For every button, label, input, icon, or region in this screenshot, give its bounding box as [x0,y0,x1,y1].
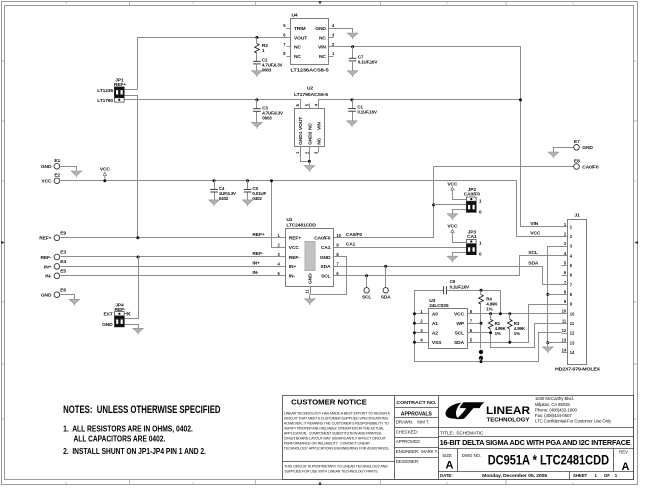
test point SDA [383,288,388,293]
wire CA1 net U1.9 to JP3 [334,247,467,249]
svg-text:CA1: CA1 [346,242,356,248]
svg-text:VERIFY PROPER AND RELIABLE OPE: VERIFY PROPER AND RELIABLE OPERATION IN … [284,426,384,430]
svg-text:13: 13 [570,340,575,345]
wire U4 pin7 NC stub [287,46,291,48]
svg-text:LT1236ACS8-5: LT1236ACS8-5 [291,68,329,74]
resistor R3 [507,319,512,329]
svg-text:NC: NC [317,137,323,144]
svg-text:2. INSTALL SHUNT ON JP1-JP4 P: 2. INSTALL SHUNT ON JP1-JP4 PIN 1 AND 2. [63,447,206,456]
svg-text:GND1: GND1 [298,131,304,145]
svg-text:VCC: VCC [100,167,111,173]
svg-text:CA0/F0: CA0/F0 [314,236,331,242]
svg-text:U4: U4 [292,13,298,19]
wire J1 pin3 to ground vertical [548,247,562,343]
wire J1 pin 13 stub [562,342,568,344]
wire JP1 pin2 REF+ select to REF+ row [125,96,138,238]
node C1 junction [351,98,354,101]
op-amp U3 24LC025 [429,309,468,349]
ground C3 [252,122,263,127]
svg-text:E4: E4 [60,259,66,265]
terminal E8 [574,164,580,170]
node VCC drop to row junction [499,312,502,315]
wire JP3 VCC pin [453,238,467,243]
svg-text:CONTRACT NO.: CONTRACT NO. [396,400,436,405]
svg-text:14: 14 [562,347,567,352]
wire J1 pin 2 stub [562,236,568,238]
terminal E3 [54,254,60,260]
wire U3 left pin [415,313,429,315]
capacitor C1 [348,108,356,110]
svg-text:REF-: REF- [252,251,263,257]
wire U3 right pin stub [468,313,474,315]
svg-text:VIN: VIN [530,221,538,227]
wire VIN net U4.2 to J1 [329,47,562,227]
jumper pads to ground [479,350,483,354]
capacitor C3 [253,108,261,110]
wire J1 pin 3 stub [562,246,568,248]
svg-text:14: 14 [570,350,575,355]
svg-text:LT1790ACS6-5: LT1790ACS6-5 [294,92,328,98]
svg-text:TRIM: TRIM [294,26,306,32]
ground C4 [209,200,220,205]
wire U1 VCC pin2 from rail [272,181,280,248]
svg-text:0402: 0402 [252,196,262,201]
wire J1 pin 10 stub [562,313,568,315]
svg-text:EXT: EXT [103,312,112,318]
svg-text:B: B [2,300,4,304]
title block frame [283,396,634,480]
svg-text:E5: E5 [60,269,66,275]
node C5 junction [246,179,249,182]
terminal E9 [54,235,60,241]
node VIN rail joins VIN vertical [519,98,522,101]
jumper JP4 [115,312,125,316]
svg-text:GND2: GND2 [307,131,313,145]
wire U3 right pin stub [468,342,474,344]
VCC symbol JP3 [451,233,453,238]
resistor R2 [255,44,260,54]
svg-text:16-BIT DELTA SIGMA ADC WITH PG: 16-BIT DELTA SIGMA ADC WITH PGA AND I2C … [440,438,631,447]
svg-text:DRAWN: KIM T.: DRAWN: KIM T. [396,420,429,425]
wire SCL row U3.6 to J1.11 [474,324,562,348]
svg-text:SCL: SCL [455,331,465,337]
svg-text:1: 1 [479,198,482,204]
ground C2 [252,71,263,76]
svg-text:NC: NC [294,54,301,60]
svg-text:C6: C6 [450,279,456,284]
svg-text:IN-: IN- [252,270,259,276]
svg-text:CA0/F0: CA0/F0 [346,232,363,238]
svg-text:TITLE: SCHEMATIC: TITLE: SCHEMATIC [440,430,484,436]
svg-text:Fax: (408)434-0507: Fax: (408)434-0507 [535,413,572,418]
svg-text:DC951A * LTC2481CDD: DC951A * LTC2481CDD [488,453,610,468]
wire REF+ row E9 to U1.1 [61,237,280,239]
wire J1 pin8 [548,294,562,296]
svg-text:SDA: SDA [454,340,465,346]
node C7 junction on VIN [351,45,354,48]
wire U1 left pin stub [280,275,286,277]
svg-text:VCC: VCC [447,181,458,187]
wire CA0/F0 net U1.10 to JP2/E8 vertical [334,167,434,238]
wire J1 pin 4 stub [562,255,568,257]
svg-text:J1: J1 [574,212,580,218]
svg-text:LT1790: LT1790 [97,98,113,104]
node J1 pin13 gnd junction [546,341,549,344]
node R3 bottom junction [508,341,511,344]
wire U3 right pin stub [468,323,474,325]
wire J1 pin 5 stub [562,265,568,267]
svg-text:1630 McCarthy Blvd.: 1630 McCarthy Blvd. [535,396,574,401]
capacitor C7 [349,57,357,59]
logo block lines [439,427,634,429]
svg-text:SUPPLIED FOR USE WITH LINEAR T: SUPPLIED FOR USE WITH LINEAR TECHNOLOGY … [284,470,378,474]
jumper JP3 [467,239,477,243]
node C3 junction [255,98,258,101]
LT logo [445,402,484,419]
svg-text:U1: U1 [286,217,292,223]
svg-text:CIRUIT BOARD LAYOUT MAY SIGNIF: CIRUIT BOARD LAYOUT MAY SIGNIFICANTLY AF… [284,436,387,440]
svg-text:CA1: CA1 [321,245,331,251]
svg-text:IN+: IN+ [289,264,297,270]
svg-text:LTC2481CDD: LTC2481CDD [286,222,316,228]
VCC symbol [104,176,106,181]
capacitor C5 [244,188,252,190]
svg-text:REV: REV [619,450,628,455]
node R1 top junction [489,312,492,315]
svg-text:A: A [622,461,630,473]
wire E6 to ground [61,295,75,300]
svg-text:B: B [634,300,636,304]
wire U1 GND pin8 to pad [311,257,347,295]
svg-text:13: 13 [562,338,567,343]
ground E6 [69,299,80,304]
terminal E4 [54,264,60,270]
svg-text:CIRCUIT THAT MEETS CUSTOMER-SU: CIRCUIT THAT MEETS CUSTOMER-SUPPLIED SPE… [284,416,389,420]
node U3 ground rail junction [413,331,416,334]
svg-text:TECHNOLOGY: TECHNOLOGY [487,417,530,423]
wire VIN rail segment (U2.4 to VIN vertical) [319,100,521,109]
node R4 top junction [480,289,483,292]
svg-text:10: 10 [336,233,341,238]
svg-text:REF+: REF+ [114,82,126,88]
wire JP2 VCC pin [453,196,467,200]
wire U2 pins 1,2 to ground [301,147,310,162]
wire U2 pin3 NC stub [318,147,320,153]
svg-text:11: 11 [305,289,310,294]
svg-text:CA0/F0: CA0/F0 [582,164,599,170]
svg-text:IN-: IN- [289,274,296,280]
svg-text:VCC: VCC [447,224,458,230]
svg-text:HD2X7-079-MOLEX: HD2X7-079-MOLEX [555,366,600,371]
svg-text:A1: A1 [432,321,438,327]
svg-text:A: A [2,417,4,421]
svg-text:E6: E6 [60,287,66,293]
svg-text:GND: GND [315,26,326,32]
svg-text:IN-: IN- [45,274,52,280]
svg-text:24LC025: 24LC025 [429,303,449,309]
node VCC drop junction [270,179,273,182]
jumper JP2 [467,197,477,201]
svg-text:A2: A2 [432,331,438,337]
op-amp U2 LT1790ACS6-5 [295,109,325,147]
ground JP4 [133,328,144,333]
svg-text:0.1UF,16V: 0.1UF,16V [450,285,470,290]
ground E1 [71,171,82,176]
svg-text:DWG NO.: DWG NO. [462,453,481,458]
wire J1 pin 6 stub [562,275,568,277]
svg-text:1: 1 [262,48,265,54]
svg-text:GND: GND [41,164,52,170]
svg-text:IN+: IN+ [252,261,260,267]
wire J1 pin13 [548,342,562,344]
svg-text:12: 12 [562,328,567,333]
svg-text:DESIGNER:: DESIGNER: [396,459,419,464]
node R1 bottom junction [489,331,492,334]
terminal E6 [54,292,60,298]
wire U1 left pin stub [280,237,286,239]
svg-text:1%: 1% [514,331,520,336]
svg-text:1. ALL RESISTORS ARE IN OHMS,: 1. ALL RESISTORS ARE IN OHMS, 0402. [63,425,193,434]
ground U1 pad [305,299,316,304]
svg-text:SDA: SDA [381,295,392,301]
wire SCL net U1.6 to J1.4 [334,256,562,276]
node R2 top junction [255,36,258,39]
svg-text:GND: GND [582,145,593,151]
svg-text:U2: U2 [307,86,313,92]
op-amp U1 LTC2481CDD [286,229,334,287]
node R3 top junction [508,312,511,315]
wire U4 pin4 GND [329,29,353,33]
wire J1 pin 12 stub [562,333,568,335]
wire VCC branch C6 to VCC row [447,291,501,314]
wire JP2 middle pin [434,204,467,206]
wire J1 pin 9 stub [562,304,568,306]
svg-text:VCC: VCC [530,231,541,237]
wire REF- row E3 to U1.3 [61,256,280,258]
resistor R4 leads [480,291,482,295]
connector J1 HD2X7-079-MOLEX [568,220,587,365]
svg-text:IN+: IN+ [44,264,52,270]
wire JP4 EXT stub with no-connect [125,313,128,315]
svg-text:REF+: REF+ [252,232,264,238]
svg-text:1: 1 [479,241,482,247]
node C4 junction [213,179,216,182]
svg-text:SHEET: SHEET [573,473,588,478]
wire J1 pin 8 stub [562,294,568,296]
wire SDA row U3.5 to J1.9 [474,305,562,343]
ground E7 [548,152,559,157]
wire IN+ row E4 to U1.4 [61,266,280,268]
svg-text:Milpitas, CA 95035: Milpitas, CA 95035 [535,402,570,407]
svg-text:12: 12 [570,331,575,336]
wire J1 pin 7 stub [562,284,568,286]
svg-text:OF: OF [604,473,610,478]
VCC symbol JP2 [451,190,453,195]
svg-text:GND: GND [308,273,314,284]
svg-text:1%: 1% [486,306,492,311]
svg-text:LINEAR: LINEAR [486,405,530,417]
svg-text:REF-: REF- [115,307,126,313]
wire IN- row E5 to U1.5 [61,275,280,277]
svg-text:1%: 1% [495,331,501,336]
resistor R4 [479,295,484,305]
node U2 ground junction [308,160,311,163]
svg-text:GND: GND [102,322,113,328]
op-amp U4 LT1236ACS8-5 [291,19,329,65]
svg-text:0.1UF,16V: 0.1UF,16V [358,60,378,65]
capacitor C2 [253,60,261,62]
svg-text:VOUT: VOUT [294,35,307,41]
svg-text:0: 0 [479,252,482,258]
node U3 ground rail junction [413,341,416,344]
svg-text:0: 0 [479,209,482,215]
svg-text:VCC: VCC [454,312,465,318]
svg-text:REF-: REF- [40,255,51,261]
svg-text:VSS: VSS [432,340,442,346]
wire E1 to ground [61,167,77,171]
svg-text:LINEAR TECHNOLOGY HAS MADE A B: LINEAR TECHNOLOGY HAS MADE A BEST EFFORT… [284,411,391,415]
node U3 ground rail junction [413,312,416,315]
wire J1 pin 1 stub [562,226,568,228]
svg-text:NC: NC [319,35,326,41]
jumper JP1 [115,98,125,102]
svg-text:SCL: SCL [528,250,538,256]
svg-text:VCC: VCC [41,179,52,185]
svg-text:APPROVED:: APPROVED: [396,439,421,444]
svg-text:NOTES: UNLESS OTHERWISE SPECI: NOTES: UNLESS OTHERWISE SPECIFIED [63,404,220,416]
wire U3 left pin [415,332,429,334]
wire U3 right pin stub [468,332,474,334]
svg-text:LTC Confidential-For Customer: LTC Confidential-For Customer Use Only [535,419,612,424]
node REF+ JP1 junction [136,236,139,239]
ground C5 [242,200,253,205]
node J1 pin8 gnd junction [546,293,549,296]
wire J1 pin 11 stub [562,323,568,325]
ground JP3 [447,256,458,261]
node JP2 junction on CA0/F0 vertical [432,203,435,206]
wire U3 left pin [415,342,429,344]
wire JP2 GND pin [453,210,467,214]
svg-text:E2: E2 [54,173,60,179]
wire U1 left pin stub [280,256,286,258]
svg-text:E8: E8 [574,158,580,164]
wire E7 to ground [554,148,574,153]
node SCL TP junction [365,274,368,277]
svg-text:REF-: REF- [289,255,300,261]
wire SDA net U1.7 to J1.7 [334,267,562,285]
svg-text:E1: E1 [54,158,60,164]
capacitor C4 [210,188,218,190]
wire JP4 REF- pin to REF- row [125,257,139,319]
ground C1 [347,121,358,126]
node VCC symbol junction [103,179,106,182]
svg-text:DATE:: DATE: [440,473,453,478]
wire U4 pin3 NC stub [329,37,334,39]
U1 exposed GND pad [305,242,315,271]
svg-text:THIS CIRCUIT IS PROPRIETARY TO: THIS CIRCUIT IS PROPRIETARY TO LINEAR TE… [284,464,388,468]
approvals column [395,407,439,409]
svg-text:WP: WP [456,321,464,327]
svg-text:ALL CAPACITORS ARE 0402.: ALL CAPACITORS ARE 0402. [74,435,166,444]
svg-text:CA1: CA1 [467,234,477,240]
svg-text:ENGINEER: MARK T.: ENGINEER: MARK T. [396,449,438,454]
wire U1 left pin stub [280,247,286,249]
svg-text:HOWEVER, IT REMAINS THE CUSTOM: HOWEVER, IT REMAINS THE CUSTOMER’S RESPO… [284,421,389,425]
svg-text:SDA: SDA [320,264,331,270]
terminal E1 [54,163,60,169]
svg-text:SDA: SDA [528,261,539,267]
svg-text:10: 10 [570,311,575,316]
wire U3 ground rail left [415,291,562,362]
terminal E5 [54,273,60,279]
wire JP4 GND pin [125,325,139,329]
node U3 ground rail junction [413,322,416,325]
wire U4 pin1 NC stub [329,56,334,58]
wire CA0/F0 E8 row [434,166,574,168]
wire U3 left pin [415,323,429,325]
wire U1 left pin stub [280,266,286,268]
svg-text:APPLICATION. COMPONENT SUBSTI: APPLICATION. COMPONENT SUBSTITUTION AND … [284,431,382,435]
svg-text:GND: GND [41,293,52,299]
wire R4 bottom / WP jumper vertical [480,305,482,349]
wire U4 pin5 TRIM stub [287,28,291,30]
svg-text:E3: E3 [60,250,66,256]
ground J1 [543,347,554,352]
ground JP2 [447,214,458,219]
wire U1 pad pin 11 stub [310,287,312,295]
svg-text:NC: NC [307,123,313,130]
wire WP row U3.7 [474,323,481,325]
svg-text:VIN: VIN [318,45,326,51]
svg-text:CUSTOMER NOTICE: CUSTOMER NOTICE [291,400,367,407]
svg-text:SCL: SCL [362,295,372,301]
svg-text:PERFORMANCE OR RELIABILITY. C: PERFORMANCE OR RELIABILITY. CONTACT LINE… [284,441,370,445]
svg-text:11: 11 [562,318,567,323]
capacitor C6 [443,286,445,294]
svg-text:APPROVALS: APPROVALS [401,411,433,417]
svg-text:11: 11 [570,321,575,326]
svg-text:A0: A0 [432,312,438,318]
wire U4 pin8 NC stub [287,56,291,58]
wire JP1 pin1 to VOUT vertical [125,89,138,91]
svg-text:E9: E9 [60,231,66,237]
svg-text:10: 10 [562,309,567,314]
test point SCL [364,288,369,293]
svg-text:E7: E7 [574,139,580,145]
svg-text:SCL: SCL [321,274,331,280]
svg-text:Monday, December 05, 2005: Monday, December 05, 2005 [482,473,548,478]
svg-text:CHECKED:: CHECKED: [396,429,418,434]
svg-text:NC: NC [319,54,326,60]
svg-text:0603: 0603 [262,67,272,72]
svg-text:VCC: VCC [289,245,300,251]
wire U2 pin5 NC stub [309,104,311,109]
svg-text:REF+: REF+ [289,236,301,242]
wire LT1790 VOUT rail (JP1.3 to U2.6) [125,100,301,109]
wire JP3 GND pin [453,253,467,257]
node WP junction [480,322,483,325]
svg-text:GND: GND [320,255,331,261]
svg-text:VOUT: VOUT [298,117,304,130]
wire VCC rail E2 to J1 [61,181,562,237]
svg-text:CA0/F0: CA0/F0 [464,192,481,198]
terminal E2 [54,178,60,184]
svg-text:0402: 0402 [219,196,229,201]
svg-text:Phone: (408)432-1900: Phone: (408)432-1900 [535,407,578,412]
svg-text:VIN: VIN [317,122,323,130]
ground U2 [304,166,315,171]
svg-text:A: A [446,460,454,472]
